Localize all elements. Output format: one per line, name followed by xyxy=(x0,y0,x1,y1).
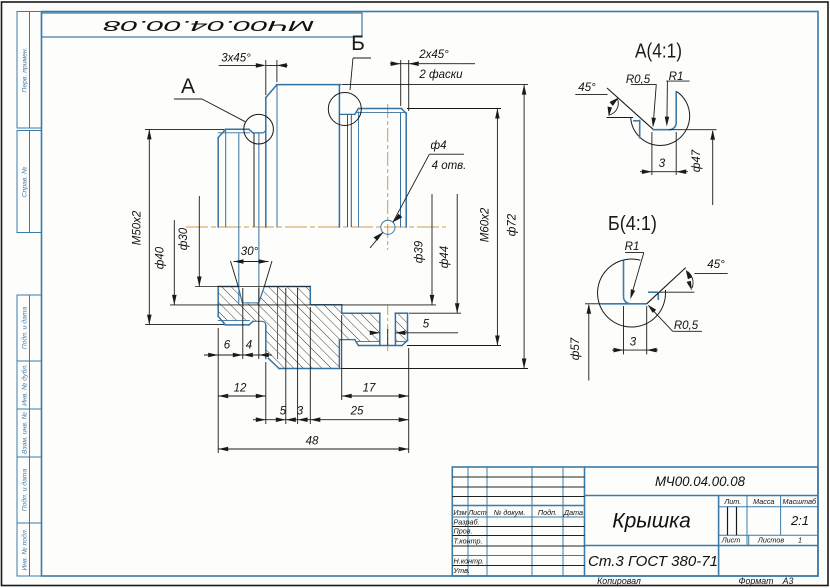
slot (hole F4) walls xyxy=(379,313,381,345)
svg-text:2:1: 2:1 xyxy=(790,513,809,528)
svg-text:3: 3 xyxy=(297,406,304,418)
svg-text:Б: Б xyxy=(351,32,365,55)
box Podp. i data xyxy=(17,295,42,361)
part edges blue xyxy=(633,91,676,139)
45 chamfer line xyxy=(607,88,653,129)
centerline of lower slot xyxy=(387,305,389,351)
svg-text:ф72: ф72 xyxy=(507,213,519,236)
F30 dim xyxy=(198,196,200,287)
svg-text:Лист: Лист xyxy=(721,536,741,545)
thread start mini chamfer bottom xyxy=(355,340,359,346)
svg-text:R1: R1 xyxy=(625,241,640,253)
thin blue vertical near thread start xyxy=(358,112,360,227)
bottom dims extension lines xyxy=(217,328,219,453)
svg-text:6: 6 xyxy=(224,340,231,352)
flange top chamfer xyxy=(266,85,277,98)
black vertical inside slot xyxy=(387,329,389,345)
M60 thread root thin xyxy=(356,111,406,113)
M50 thread root thin xyxy=(218,132,249,134)
dimension texts xyxy=(132,49,519,448)
svg-text:ф40: ф40 xyxy=(155,246,167,269)
helper line xyxy=(607,117,634,119)
svg-text:3х45°: 3х45° xyxy=(221,53,251,65)
center/right structure xyxy=(585,496,819,577)
top-left inverted doc number box xyxy=(42,13,363,37)
left margin labels xyxy=(21,47,29,570)
M50 crest xyxy=(225,128,249,130)
svg-text:5: 5 xyxy=(280,406,287,418)
svg-text:Н.контр.: Н.контр. xyxy=(454,557,484,566)
groove B area dark verticals xyxy=(348,114,352,227)
svg-text:3: 3 xyxy=(630,337,637,349)
svg-text:Формат: Формат xyxy=(739,576,774,586)
chamfer edge vertical on boss xyxy=(225,129,227,227)
svg-text:45°: 45° xyxy=(707,259,725,271)
flange top edge F72 xyxy=(277,84,340,86)
svg-text:Инв. № дубл.: Инв. № дубл. xyxy=(21,364,29,406)
svg-text:Пров.: Пров. xyxy=(454,527,473,536)
svg-text:ф47: ф47 xyxy=(691,149,703,172)
box Vzam. inv. No xyxy=(17,409,42,457)
svg-text:Утв.: Утв. xyxy=(453,566,470,575)
detail boundary arc (gap upper-left) xyxy=(631,91,690,145)
svg-text:ф4: ф4 xyxy=(430,140,446,152)
svg-text:25: 25 xyxy=(350,406,364,418)
boss end face lower xyxy=(217,287,219,317)
M50 root thin bottom xyxy=(218,320,249,322)
left boss end face xyxy=(217,138,219,227)
groove A chamfer xyxy=(249,129,253,133)
A label leader xyxy=(174,98,202,100)
F40 dim xyxy=(173,220,175,305)
svg-text:Инв. № подл.: Инв. № подл. xyxy=(21,528,29,570)
vertical below center at flange chamfer edge xyxy=(277,287,279,359)
groove A bottom + fillet xyxy=(253,129,266,133)
svg-text:А3: А3 xyxy=(782,576,794,586)
F30 bore edges xyxy=(218,286,238,288)
left boss end chamfer xyxy=(218,129,225,137)
box Podp. i data 2 xyxy=(17,457,42,523)
hatch areas xyxy=(218,287,407,369)
svg-text:5: 5 xyxy=(423,319,430,331)
svg-text:Подп. и дата: Подп. и дата xyxy=(21,469,29,512)
svg-text:3: 3 xyxy=(659,158,666,170)
svg-text:ф44: ф44 xyxy=(439,246,451,268)
F4 leader xyxy=(393,154,430,222)
svg-text:2 фаски: 2 фаски xyxy=(418,69,463,81)
flange left face lower xyxy=(265,325,267,358)
svg-text:ф30: ф30 xyxy=(178,227,190,250)
right end face lower xyxy=(407,313,409,340)
svg-text:Взам. инв. №: Взам. инв. № xyxy=(22,412,29,454)
svg-text:Б(4:1): Б(4:1) xyxy=(608,213,657,235)
black sub-dividers in Lit cell xyxy=(727,507,729,536)
svg-text:Изм: Изм xyxy=(453,508,466,517)
outer box xyxy=(452,467,818,576)
svg-text:МЧ00.04.00.08: МЧ00.04.00.08 xyxy=(104,17,315,33)
3 dim xyxy=(612,306,658,354)
M60 crest top xyxy=(358,108,401,110)
flange chamfer edge vertical xyxy=(276,85,278,227)
svg-text:Масштаб: Масштаб xyxy=(783,497,818,506)
vertical centerline of hole F4 xyxy=(387,104,389,250)
arrowheads xyxy=(147,61,526,451)
F44 dim xyxy=(456,194,458,313)
M50 crest bottom xyxy=(225,324,249,326)
svg-text:Т.контр.: Т.контр. xyxy=(454,537,483,546)
M50x2 dim line and extensions xyxy=(148,129,150,324)
thread start mini chamfer xyxy=(355,109,359,115)
F47 dim xyxy=(669,129,717,131)
svg-text:ф39: ф39 xyxy=(414,240,426,263)
step F30/F39 xyxy=(309,287,311,305)
right end chamfer xyxy=(402,109,407,114)
left margin column boxes xyxy=(17,12,42,577)
svg-text:12: 12 xyxy=(234,383,247,395)
M60x2 dim xyxy=(496,109,498,346)
detail indicator circles xyxy=(244,114,274,144)
svg-text:ф57: ф57 xyxy=(570,337,582,360)
svg-text:№ докум.: № докум. xyxy=(494,508,526,517)
svg-text:Перв. примен.: Перв. примен. xyxy=(22,47,29,92)
svg-text:4 отв.: 4 отв. xyxy=(432,160,467,172)
svg-text:МЧ00.04.00.08: МЧ00.04.00.08 xyxy=(655,473,745,489)
vertical lines left part xyxy=(468,467,563,576)
flange left face xyxy=(265,98,267,227)
5 groove dim (right) xyxy=(371,332,380,334)
2x45 chamfer dim xyxy=(419,63,460,65)
svg-text:Подп. и дата: Подп. и дата xyxy=(21,307,29,350)
boss end chamfer lower xyxy=(218,316,225,325)
B label leader xyxy=(350,58,353,90)
svg-text:Ст.3 ГОСТ 380-71: Ст.3 ГОСТ 380-71 xyxy=(588,553,718,570)
svg-text:Справ. №: Справ. № xyxy=(22,167,29,198)
flange right face lower xyxy=(338,340,340,369)
svg-text:30°: 30° xyxy=(241,246,259,258)
svg-text:R0,5: R0,5 xyxy=(674,320,699,332)
dim line 12 / 17 xyxy=(218,395,266,397)
box Inv. No podl. xyxy=(17,523,42,576)
30 deg cone dim xyxy=(234,261,269,263)
step F39/F44 xyxy=(341,305,343,314)
F72 dim xyxy=(523,85,525,369)
svg-text:Масса: Масса xyxy=(753,497,774,506)
chamfer edge vertical right xyxy=(400,114,402,228)
M60 root thin bottom xyxy=(356,341,380,343)
svg-text:А: А xyxy=(181,75,195,98)
F39 dim xyxy=(431,194,433,305)
svg-text:Лист: Лист xyxy=(467,508,487,517)
part outline: lower half (section, blue) xyxy=(218,287,407,369)
part edges blue xyxy=(600,260,658,303)
cone groove V xyxy=(238,287,242,303)
45 chamfer line xyxy=(647,268,686,304)
horizontal centerline xyxy=(186,226,446,228)
box Sprav. No xyxy=(17,131,42,233)
svg-text:М50х2: М50х2 xyxy=(132,210,144,245)
F40/F39 extension line combined xyxy=(170,304,436,306)
svg-text:Подп.: Подп. xyxy=(538,508,557,517)
box Perv. primen. xyxy=(17,12,42,129)
svg-text:Копировал: Копировал xyxy=(597,576,641,586)
long verticals at cone groove xyxy=(238,134,240,303)
F57 dim xyxy=(585,303,600,305)
svg-text:17: 17 xyxy=(363,383,376,395)
flange bottom F72 xyxy=(279,368,339,370)
flange right face xyxy=(338,85,340,227)
svg-text:45°: 45° xyxy=(578,82,596,94)
F44 bore edge xyxy=(342,312,380,314)
groove A dark vertical xyxy=(253,134,255,228)
M60 crest bottom xyxy=(358,345,402,347)
svg-text:М60х2: М60х2 xyxy=(480,207,492,242)
svg-text:Крышка: Крышка xyxy=(612,510,691,533)
svg-text:4: 4 xyxy=(246,340,252,352)
detail boundary arc (gap upper-right) xyxy=(598,259,666,327)
groove A chamfer lower xyxy=(249,321,253,325)
right end face xyxy=(405,114,407,228)
groove B bottom lower xyxy=(339,339,354,341)
view labels xyxy=(181,32,365,98)
svg-text:Дата: Дата xyxy=(563,508,583,517)
groove A fillet + bottom lower xyxy=(253,321,266,325)
hole F4 circle on centerline xyxy=(381,220,395,234)
svg-text:Лит.: Лит. xyxy=(723,497,741,506)
svg-text:А(4:1): А(4:1) xyxy=(635,41,682,63)
3 dim xyxy=(640,132,688,175)
svg-text:2х45°: 2х45° xyxy=(418,49,449,61)
svg-text:48: 48 xyxy=(306,436,319,448)
dim line 5/3/25 xyxy=(253,419,409,421)
svg-text:Листов: Листов xyxy=(757,536,784,545)
dim line 6/4 xyxy=(204,354,272,356)
flange bottom chamfer xyxy=(269,359,280,369)
dim line 48 xyxy=(218,448,409,450)
svg-text:1: 1 xyxy=(798,536,802,545)
groove B bottom xyxy=(339,113,354,115)
3x45 chamfer dim xyxy=(219,64,259,66)
box Inv. No dubl. xyxy=(17,361,42,409)
helper line xyxy=(660,291,695,293)
horizontal lines left part xyxy=(452,477,584,566)
svg-text:Разраб.: Разраб. xyxy=(454,518,480,527)
F39 bore edge xyxy=(310,304,341,306)
right end chamfer lower xyxy=(402,341,408,346)
part outline: upper half (blue) xyxy=(218,85,406,303)
